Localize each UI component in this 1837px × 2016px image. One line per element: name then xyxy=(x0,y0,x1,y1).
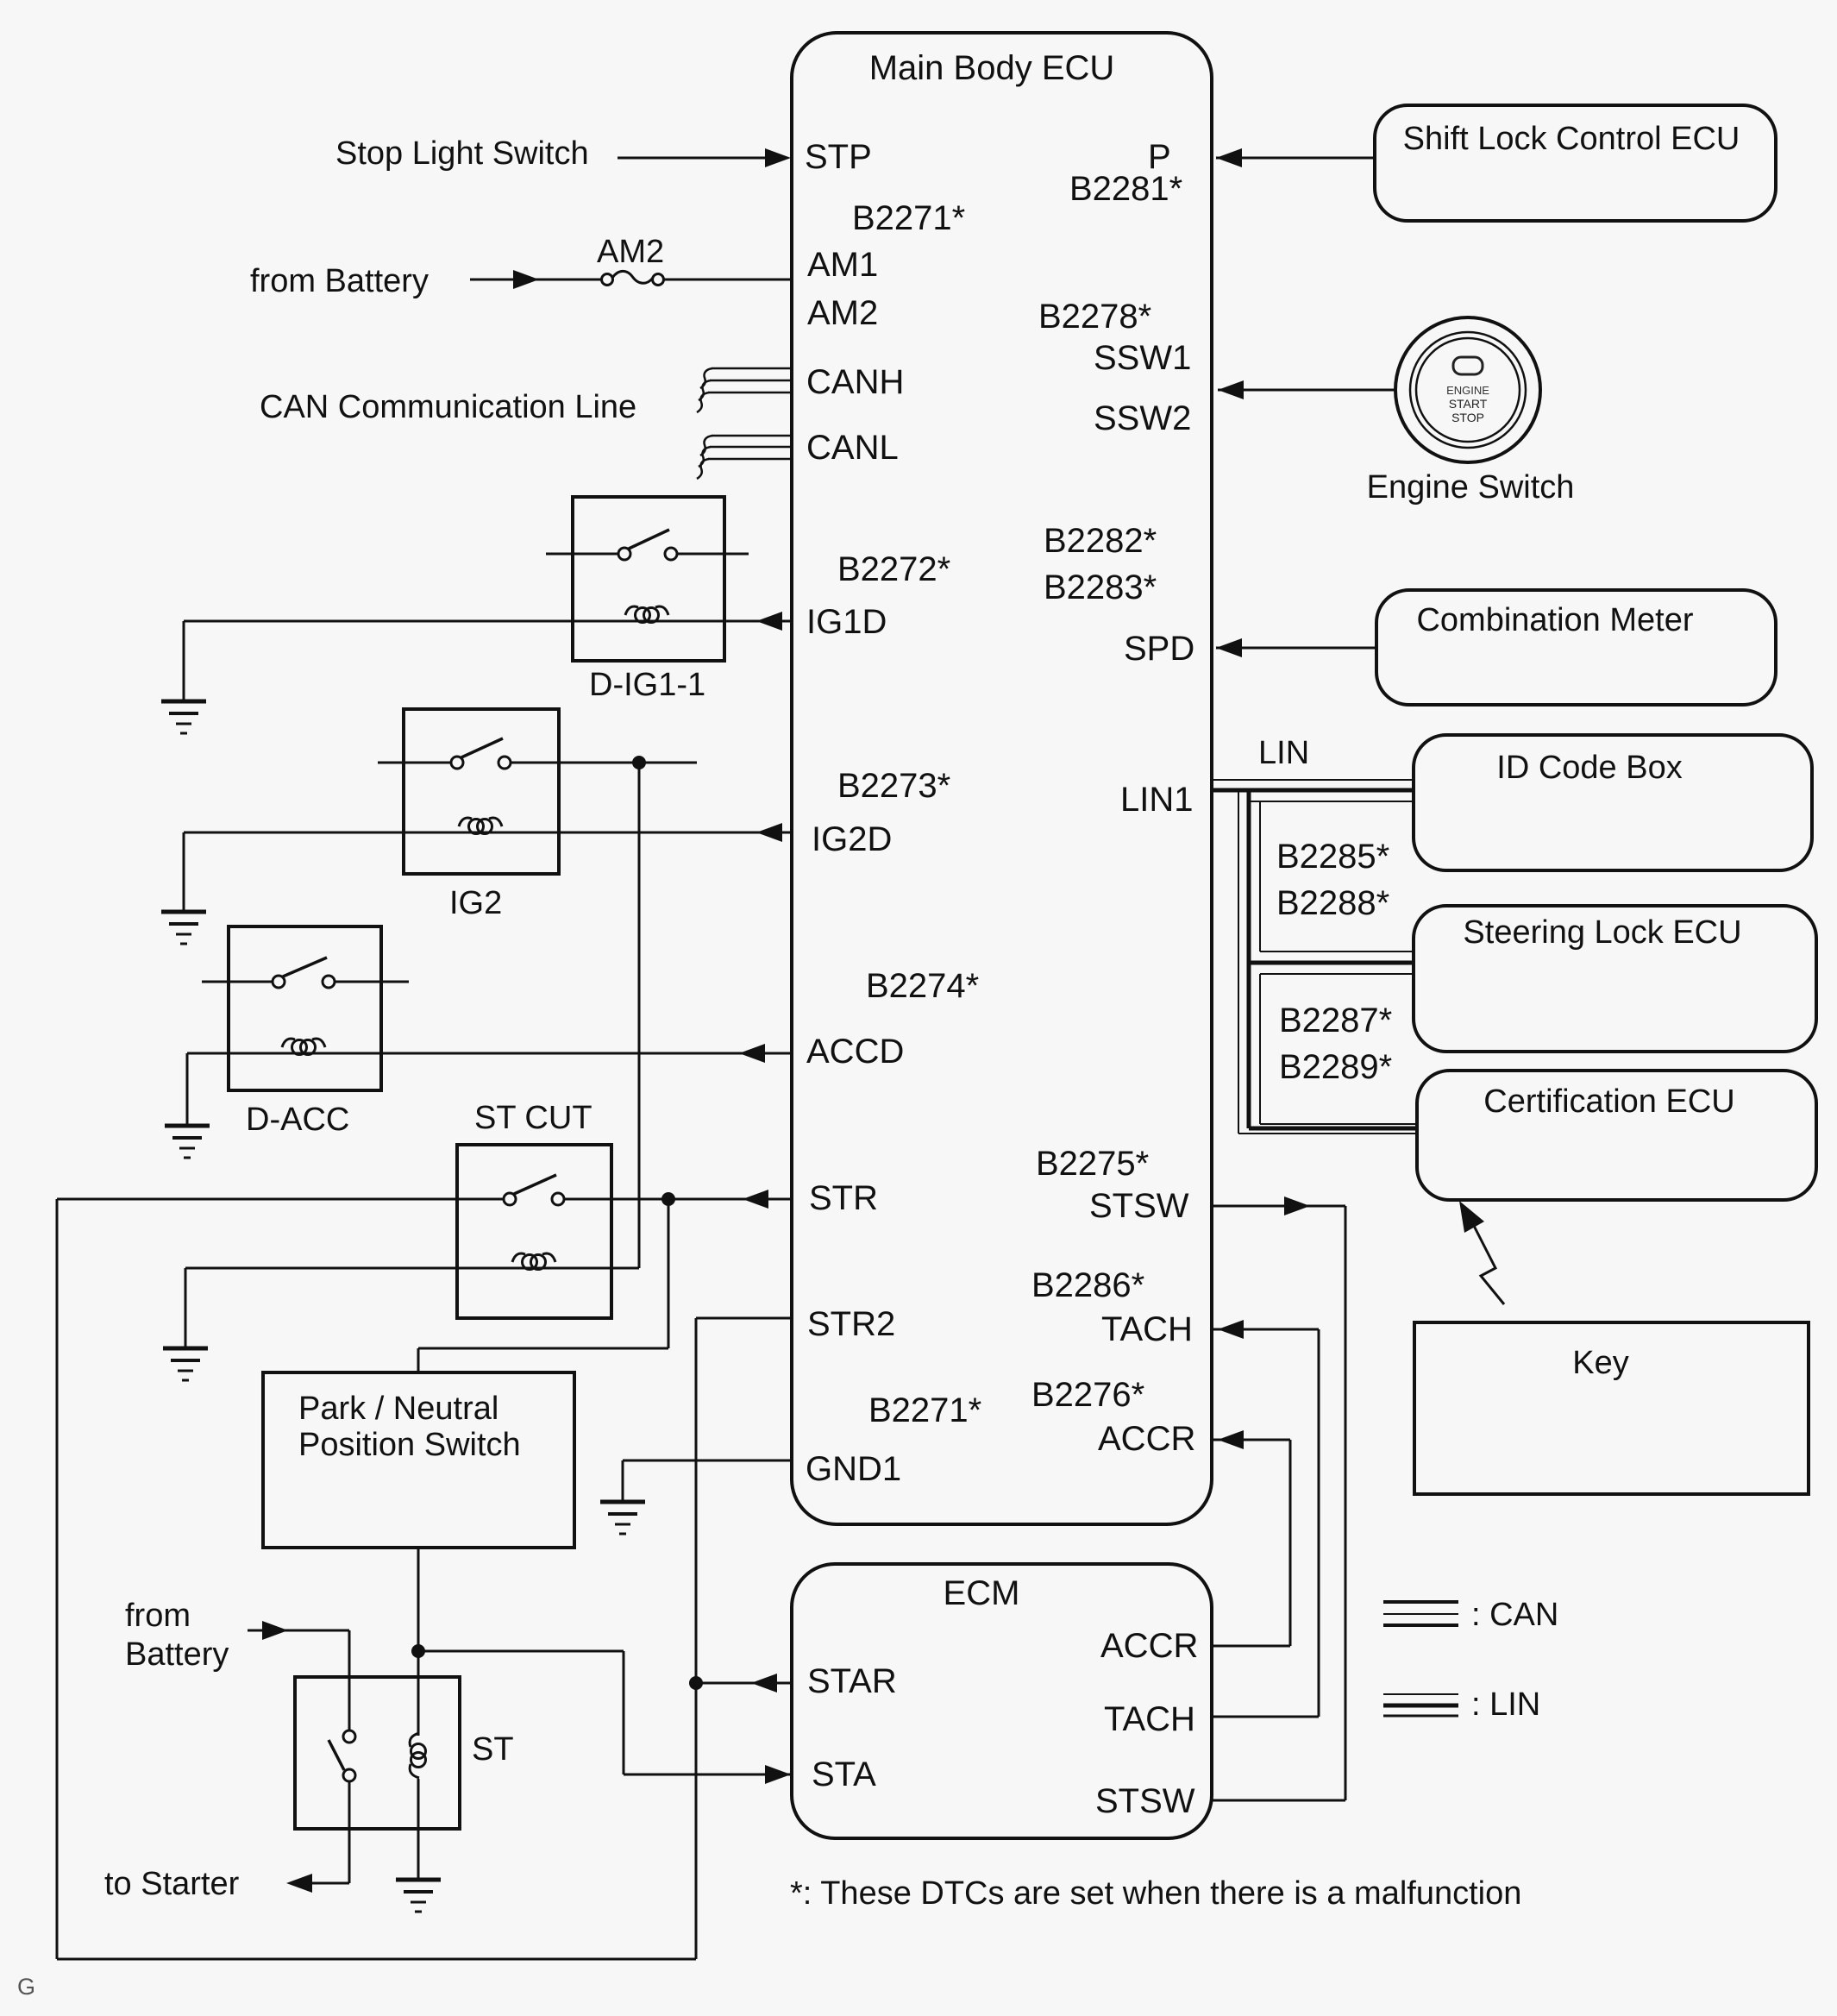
svg-text:B2288*: B2288* xyxy=(1276,884,1389,922)
svg-text:from Battery: from Battery xyxy=(250,263,429,299)
relay D-ACC contact xyxy=(202,981,273,983)
ground for D-ACC xyxy=(165,1124,210,1128)
relay ST box xyxy=(295,1677,460,1829)
svg-text:GND1: GND1 xyxy=(806,1450,901,1488)
ECM U2 box xyxy=(792,1564,1212,1838)
svg-text:AM2: AM2 xyxy=(597,234,664,270)
svg-text:B2271*: B2271* xyxy=(852,199,965,237)
junction dot STR xyxy=(661,1192,675,1206)
relay IG2 contact xyxy=(378,762,451,764)
wire STR2 left riser and bottom run xyxy=(696,1317,793,1320)
svg-text:CANH: CANH xyxy=(806,363,904,401)
LIN bus ribbon to ID Code Box xyxy=(1213,779,1415,781)
svg-text:from: from xyxy=(125,1598,191,1634)
wire STR junction to Park/Neutral switch xyxy=(668,1199,670,1348)
svg-text:SPD: SPD xyxy=(1124,630,1194,668)
svg-text:Battery: Battery xyxy=(125,1636,229,1673)
svg-text:AM2: AM2 xyxy=(807,294,878,332)
svg-text:B2278*: B2278* xyxy=(1038,298,1151,336)
svg-text:: LIN: : LIN xyxy=(1471,1686,1540,1723)
svg-text:STA: STA xyxy=(812,1755,876,1793)
ground GND1 xyxy=(600,1500,645,1504)
svg-text:B2287*: B2287* xyxy=(1279,1002,1392,1039)
ground for IG2 xyxy=(161,910,206,914)
svg-text:IG2: IG2 xyxy=(449,885,502,921)
svg-text:Certification ECU: Certification ECU xyxy=(1483,1083,1734,1120)
svg-text:B2275*: B2275* xyxy=(1036,1145,1149,1183)
ground for D-IG1-1 xyxy=(161,700,206,704)
relay ST contact vertical xyxy=(343,1730,355,1743)
svg-text:B2276*: B2276* xyxy=(1031,1376,1144,1414)
wire GND1 xyxy=(623,1460,793,1462)
wireless lightning arrow from Key to Certification ECU xyxy=(1474,1226,1504,1304)
wire from Battery to ST contact xyxy=(248,1630,349,1632)
svg-text:B2271*: B2271* xyxy=(868,1391,981,1429)
legend CAN symbol xyxy=(1383,1600,1458,1604)
svg-text:CANL: CANL xyxy=(806,429,899,467)
wire ACCR xyxy=(1212,1439,1290,1441)
wire SSW from Engine Switch xyxy=(1218,389,1395,392)
svg-text:: CAN: : CAN xyxy=(1471,1597,1558,1633)
svg-text:Engine Switch: Engine Switch xyxy=(1367,469,1575,506)
ground for ST CUT coil xyxy=(163,1347,208,1351)
svg-text:B2272*: B2272* xyxy=(837,550,950,588)
wire fuse to AM1 pin xyxy=(663,279,793,281)
svg-text:to Starter: to Starter xyxy=(104,1866,240,1902)
relay D-IG1-1 contact xyxy=(546,553,618,556)
svg-text:B2283*: B2283* xyxy=(1044,568,1157,606)
svg-text:Position Switch: Position Switch xyxy=(298,1427,521,1463)
svg-text:B2281*: B2281* xyxy=(1069,170,1182,208)
wire Park/Neutral to ST relay and STA xyxy=(417,1548,420,1736)
wire TACH xyxy=(1212,1328,1319,1331)
wire from Battery to fuse xyxy=(470,279,601,281)
svg-text:ACCD: ACCD xyxy=(806,1033,904,1071)
svg-text:STR2: STR2 xyxy=(807,1305,895,1343)
svg-text:STP: STP xyxy=(805,138,872,176)
relay IG2 box xyxy=(404,709,559,874)
svg-text:Combination Meter: Combination Meter xyxy=(1416,602,1693,638)
relay D-IG1-1 coil xyxy=(625,606,638,615)
relay D-IG1-1 box xyxy=(573,497,724,661)
wire to Starter xyxy=(348,1781,351,1883)
Shift Lock Control ECU box xyxy=(1375,105,1776,221)
svg-text:ECM: ECM xyxy=(944,1574,1020,1612)
svg-text:ACCR: ACCR xyxy=(1098,1420,1195,1458)
svg-text:Shift Lock Control ECU: Shift Lock Control ECU xyxy=(1403,121,1740,157)
svg-text:START: START xyxy=(1449,397,1488,411)
CANL bus stub xyxy=(700,436,712,455)
svg-text:TACH: TACH xyxy=(1101,1310,1193,1348)
relay IG2 coil xyxy=(459,818,472,826)
svg-text:STR: STR xyxy=(809,1179,878,1217)
svg-text:TACH: TACH xyxy=(1104,1700,1195,1738)
svg-text:B2282*: B2282* xyxy=(1044,522,1157,560)
svg-text:ST CUT: ST CUT xyxy=(474,1100,592,1136)
svg-text:IG2D: IG2D xyxy=(812,820,892,858)
wire STAR xyxy=(696,1682,793,1685)
svg-text:B2273*: B2273* xyxy=(837,767,950,805)
svg-text:ACCR: ACCR xyxy=(1100,1627,1198,1665)
svg-text:ENGINE: ENGINE xyxy=(1446,384,1489,397)
wire P from Shift Lock Control ECU xyxy=(1216,157,1375,160)
wire STR with ST CUT contact xyxy=(57,1198,504,1201)
ground for ST coil xyxy=(396,1878,441,1882)
Steering Lock ECU box xyxy=(1414,906,1816,1052)
wire IG2D xyxy=(184,832,793,834)
svg-text:AM1: AM1 xyxy=(807,246,878,284)
Certification ECU box xyxy=(1417,1071,1816,1200)
svg-text:IG1D: IG1D xyxy=(806,603,887,641)
svg-text:D-ACC: D-ACC xyxy=(246,1102,349,1138)
svg-text:LIN: LIN xyxy=(1258,735,1309,771)
svg-text:LIN1: LIN1 xyxy=(1120,781,1194,819)
svg-text:CAN Communication Line: CAN Communication Line xyxy=(260,389,636,425)
svg-text:B2289*: B2289* xyxy=(1279,1048,1392,1086)
ID Code Box xyxy=(1414,735,1812,870)
wire IG1D xyxy=(184,620,793,623)
relay ST CUT coil xyxy=(512,1253,525,1262)
svg-text:Stop Light Switch: Stop Light Switch xyxy=(335,135,589,172)
relay D-ACC box xyxy=(229,926,381,1090)
Combination Meter box xyxy=(1376,590,1776,705)
svg-text:ID Code Box: ID Code Box xyxy=(1496,750,1682,786)
svg-text:STSW: STSW xyxy=(1095,1782,1195,1820)
wire ACCD xyxy=(187,1052,793,1055)
svg-text:B2285*: B2285* xyxy=(1276,838,1389,876)
svg-text:STOP: STOP xyxy=(1451,411,1484,424)
wire SPD from Combination Meter xyxy=(1216,647,1376,650)
Main Body ECU U1 box xyxy=(792,33,1212,1524)
svg-text:B2274*: B2274* xyxy=(866,967,979,1005)
svg-text:Steering Lock ECU: Steering Lock ECU xyxy=(1463,914,1741,951)
svg-text:SSW2: SSW2 xyxy=(1094,399,1191,437)
CANH bus stub xyxy=(700,368,712,388)
svg-text:D-IG1-1: D-IG1-1 xyxy=(589,667,705,703)
legend LIN symbol xyxy=(1383,1693,1458,1695)
svg-text:STSW: STSW xyxy=(1089,1187,1189,1225)
svg-text:Park / Neutral: Park / Neutral xyxy=(298,1391,498,1427)
relay ST coil vertical xyxy=(410,1733,419,1747)
Park / Neutral Position Switch box xyxy=(263,1372,574,1548)
wire STSW main to junction xyxy=(1212,1205,1345,1208)
wire STP from Stop Light Switch xyxy=(618,157,769,160)
LIN bus vertical ribbon xyxy=(1238,790,1239,1134)
junction dot IG2 output xyxy=(632,756,646,769)
LIN bus loop to Steering Lock ECU xyxy=(1259,801,1261,951)
svg-text:Key: Key xyxy=(1572,1345,1628,1381)
junction dot STAR xyxy=(689,1676,703,1690)
relay ST CUT box xyxy=(457,1145,611,1318)
wire IG2 output down to ST CUT coil xyxy=(638,763,641,1268)
relay D-ACC coil xyxy=(282,1039,295,1047)
wire ST coil to ground xyxy=(417,1779,420,1879)
svg-text:G: G xyxy=(17,1974,35,2000)
Engine Switch push button xyxy=(1395,317,1540,462)
svg-text:ST: ST xyxy=(472,1731,514,1768)
svg-text:STAR: STAR xyxy=(807,1662,897,1700)
svg-text:B2286*: B2286* xyxy=(1031,1266,1144,1304)
Key box xyxy=(1414,1322,1809,1494)
svg-text:Main Body ECU: Main Body ECU xyxy=(869,49,1115,87)
svg-text:SSW1: SSW1 xyxy=(1094,339,1191,377)
svg-text:*: These DTCs are set when the: *: These DTCs are set when there is a ma… xyxy=(790,1875,1521,1912)
LIN bus loop to Certification ECU xyxy=(1260,1123,1419,1125)
